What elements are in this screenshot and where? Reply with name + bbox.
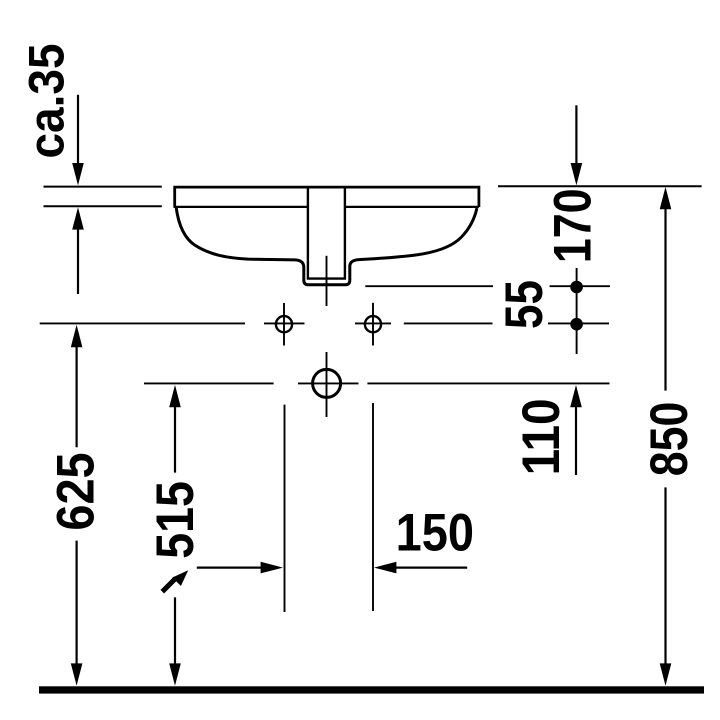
faucet hole vertical crosshair (326, 352, 328, 417)
faucet hole circle (313, 369, 341, 397)
drain-bottom level reference line y=286 (365, 285, 610, 287)
washbasin drain column (308, 188, 345, 279)
faucet center reference line y=383.4 (144, 382, 610, 384)
dot upper (drain level) (570, 281, 583, 294)
dimension 625 line with arrows (71, 325, 83, 347)
right fixing hole (365, 316, 381, 332)
left hole extension line down (284, 405, 286, 612)
svg-text:850: 850 (640, 402, 698, 477)
dimension 55 dots line (576, 268, 578, 354)
extension line rim-top right (850/170 reference) (498, 185, 702, 187)
svg-text:625: 625 (46, 452, 105, 530)
svg-text:ca.35: ca.35 (20, 43, 75, 158)
left fixing hole vertical crosshair (283, 303, 285, 346)
svg-text:515: 515 (145, 481, 204, 559)
left fixing hole (276, 316, 292, 332)
right hole extension line down (372, 403, 374, 611)
svg-text:55: 55 (495, 280, 554, 329)
svg-text:150: 150 (396, 503, 474, 562)
floor line (39, 686, 704, 693)
dimension 170 line with arrow (575, 105, 577, 164)
svg-text:170: 170 (544, 188, 602, 263)
dimension 110 line with arrow (570, 385, 582, 407)
dot lower (fixing holes level) (570, 318, 583, 331)
dimension 850 line with arrows (660, 187, 672, 209)
fixing-holes reference line y=323.4 (40, 322, 609, 324)
leader bent arrow (162, 579, 175, 592)
right fixing hole vertical crosshair (372, 303, 374, 346)
dimension 515 line with arrows (169, 385, 181, 407)
svg-text:110: 110 (511, 398, 571, 475)
washbasin bowl outline with drain boot (176, 208, 477, 285)
drain center line (upper) (326, 256, 328, 306)
extension line rim-bottom left (ca.35 lower reference) (44, 205, 162, 207)
washbasin rim bottom line (174, 206, 479, 208)
extension line rim-top left (ca.35 upper reference) (44, 186, 162, 188)
dimension ca.35 line with arrows (77, 95, 79, 165)
dimension 150 line with arrows (197, 566, 261, 568)
washbasin rim band (175, 187, 479, 207)
